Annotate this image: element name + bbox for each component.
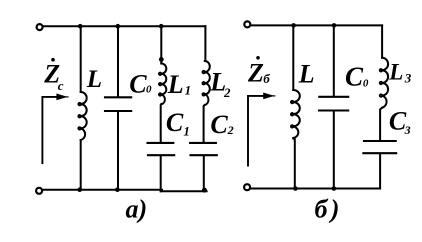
wire bottom rail a (right part) [161, 190, 207, 192]
svg-text:2: 2 [227, 123, 234, 137]
svg-text:): ) [329, 195, 340, 224]
node top of L branch a [78, 24, 83, 29]
svg-text:2: 2 [223, 85, 231, 100]
svg-text:L: L [167, 70, 184, 99]
inductor L2 [203, 61, 210, 105]
node top of L branch b [291, 23, 296, 28]
svg-text:б: б [315, 195, 329, 224]
wire top rail corner into L3 branch [381, 25, 383, 57]
svg-text:0: 0 [146, 83, 152, 95]
node bottom of C0 branch b [332, 186, 337, 191]
wire bottom lead of C3 [379, 154, 381, 189]
wire between L1 and C1 [160, 104, 163, 142]
svg-text:c: c [58, 78, 64, 93]
node bottom of L branch b [293, 186, 298, 191]
wire top lead of C0 (a) [117, 26, 119, 96]
capacitor C2 [190, 143, 217, 155]
svg-text:L: L [86, 66, 102, 93]
wire between L3 and C3 [380, 108, 382, 140]
node top of C0 branch a [116, 24, 121, 29]
derivative dot over Z (b) [256, 56, 260, 60]
wire top rail corner into L2 branch [204, 26, 206, 61]
svg-text:1: 1 [183, 123, 190, 138]
svg-text:L: L [388, 59, 403, 84]
terminal bottom-left (input b) [244, 184, 250, 190]
svg-text:3: 3 [404, 123, 411, 137]
capacitor C1 [148, 143, 175, 155]
wire top lead of C0 (b) [333, 25, 335, 95]
inductor L (b) [291, 90, 300, 138]
svg-text:C: C [345, 61, 364, 91]
capacitor C3 [363, 141, 396, 153]
wire bottom lead of L (b) [293, 138, 295, 188]
node bottom of C0 branch a [115, 187, 120, 192]
impedance arrow Zc [42, 97, 61, 163]
terminal top-left (input b) [244, 21, 250, 27]
node top of L1 branch a [159, 24, 164, 29]
wire bottom rail b [250, 188, 380, 190]
node bottom of L2-C2 branch a [202, 188, 207, 193]
wire bottom lead of C0 (a) [117, 112, 119, 190]
node bottom of L branch a [77, 187, 82, 192]
wire bottom rail a (left part) [42, 189, 162, 191]
svg-text:а): а) [126, 195, 148, 224]
wire bottom lead of C1 [160, 156, 162, 191]
svg-text:C: C [210, 110, 228, 139]
wire between L2 and C2 [204, 105, 205, 142]
wire top lead of L (b) [292, 25, 294, 90]
wire top lead of L (a) [80, 26, 82, 92]
svg-text:C: C [129, 69, 147, 98]
capacitor C0 (a) [105, 97, 131, 111]
svg-text:б: б [263, 71, 270, 86]
derivative dot over Z (a) [51, 58, 55, 62]
inductor L3 [380, 58, 388, 108]
wire top rail b [251, 24, 383, 26]
svg-text:Z: Z [247, 59, 264, 88]
terminal top-left (input) [37, 24, 43, 30]
node top of C0 branch b [332, 23, 337, 28]
capacitor C0 (b) [319, 97, 348, 111]
wire top lead of L1 branch [160, 26, 162, 63]
svg-text:3: 3 [404, 71, 412, 86]
svg-text:0: 0 [363, 77, 369, 89]
terminal bottom-left (input) [36, 188, 42, 194]
impedance arrow Zb [248, 96, 267, 166]
wire bottom lead of L (a) [80, 140, 82, 190]
wire bottom lead of C0 (b) [333, 111, 335, 188]
wire top rail a [43, 25, 206, 27]
inductor L1 [159, 64, 166, 105]
svg-text:L: L [298, 60, 315, 89]
inductor L (a) [78, 92, 86, 140]
node on L1 wire [159, 57, 164, 62]
svg-text:C: C [166, 108, 184, 137]
wire bottom lead of C2 [203, 156, 206, 190]
svg-text:1: 1 [185, 83, 192, 98]
